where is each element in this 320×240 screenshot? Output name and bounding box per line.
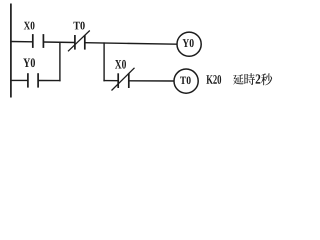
note 延時2秒 xyxy=(233,73,272,85)
wire: contact X0 (NC) to coil T0 xyxy=(129,80,175,82)
wire: riser joining Y0 branch to top rung xyxy=(59,42,61,81)
wire: rail to contact Y0 xyxy=(10,79,28,81)
wire: rail to contact X0 xyxy=(10,41,32,43)
contact T0 normally-closed xyxy=(68,31,90,52)
value K20 (timer preset) xyxy=(206,75,221,84)
wire: contact T0 to coil Y0 xyxy=(85,43,177,45)
wire: contact Y0 to riser xyxy=(38,80,61,82)
coil Y0 xyxy=(177,32,201,56)
wire: contact X0 to contact T0 xyxy=(43,41,75,44)
wire: drop from top rung to timer branch xyxy=(103,42,105,81)
label X0 (timer-branch contact) xyxy=(115,60,126,69)
contact Y0 normally-open xyxy=(28,73,38,87)
label X0 (top contact) xyxy=(24,22,35,30)
contact X0 normally-open xyxy=(33,34,44,48)
left power rail xyxy=(10,4,12,98)
wire: drop to contact X0 (NC) xyxy=(103,80,118,82)
label T0 (inside coil) xyxy=(180,77,191,85)
label T0 (top contact) xyxy=(73,22,84,30)
contact X0 normally-closed xyxy=(112,68,135,91)
label Y0 (parallel contact) xyxy=(23,58,35,67)
coil T0 xyxy=(174,69,198,93)
label Y0 (inside coil) xyxy=(183,39,194,47)
